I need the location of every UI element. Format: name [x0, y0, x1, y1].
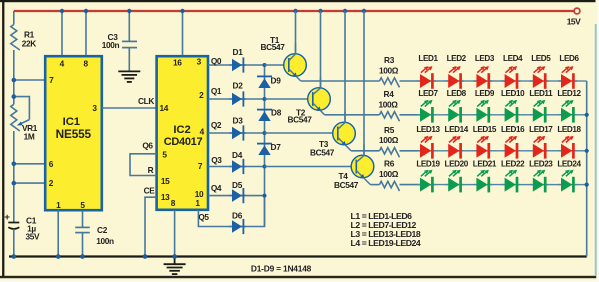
svg-text:LED7: LED7: [418, 89, 438, 98]
svg-text:LED8: LED8: [447, 89, 467, 98]
svg-text:LED14: LED14: [445, 125, 469, 134]
svg-text:R6: R6: [384, 159, 395, 169]
svg-text:LED22: LED22: [501, 159, 525, 168]
svg-text:R3: R3: [384, 55, 395, 65]
svg-text:8: 8: [83, 59, 88, 69]
svg-text:LED20: LED20: [445, 159, 469, 168]
svg-text:22K: 22K: [22, 39, 37, 49]
svg-text:LED5: LED5: [531, 54, 551, 63]
svg-text:1M: 1M: [24, 131, 35, 141]
svg-text:BC547: BC547: [260, 42, 285, 52]
svg-text:3: 3: [197, 57, 202, 67]
svg-text:Q3: Q3: [211, 155, 222, 165]
svg-text:LED16: LED16: [501, 125, 525, 134]
svg-text:CLK: CLK: [138, 96, 154, 106]
svg-text:100n: 100n: [96, 236, 114, 246]
svg-text:7: 7: [198, 161, 203, 171]
svg-text:100Ω: 100Ω: [378, 99, 398, 109]
svg-text:Q1: Q1: [211, 86, 222, 96]
svg-text:BC547: BC547: [310, 148, 335, 158]
svg-text:Q5: Q5: [198, 212, 209, 222]
svg-text:D4: D4: [232, 150, 243, 160]
svg-text:IC2: IC2: [173, 124, 190, 136]
svg-text:BC547: BC547: [287, 115, 312, 125]
svg-text:CD4017: CD4017: [164, 136, 203, 148]
svg-text:Q2: Q2: [211, 120, 222, 130]
svg-text:D9: D9: [271, 76, 282, 86]
svg-text:+: +: [4, 212, 10, 223]
svg-text:LED9: LED9: [475, 89, 495, 98]
svg-text:LED12: LED12: [557, 89, 581, 98]
svg-text:5: 5: [80, 200, 85, 210]
svg-text:35V: 35V: [26, 232, 41, 242]
svg-text:IC1: IC1: [63, 116, 80, 128]
svg-text:D5: D5: [232, 180, 243, 190]
svg-text:LED19: LED19: [416, 159, 440, 168]
svg-text:LED24: LED24: [557, 159, 581, 168]
svg-text:BC547: BC547: [334, 180, 359, 190]
svg-text:LED1: LED1: [418, 54, 438, 63]
svg-text:100n: 100n: [102, 40, 120, 50]
svg-text:13: 13: [161, 192, 170, 202]
svg-text:CE: CE: [144, 186, 156, 196]
svg-text:100Ω: 100Ω: [379, 65, 399, 75]
svg-text:D1-D9 = 1N4148: D1-D9 = 1N4148: [251, 263, 312, 273]
svg-text:5: 5: [162, 150, 167, 160]
svg-text:D3: D3: [233, 116, 244, 126]
svg-text:NE555: NE555: [56, 127, 92, 141]
svg-text:LED6: LED6: [559, 54, 579, 63]
svg-text:15V: 15V: [567, 17, 581, 27]
svg-text:C2: C2: [97, 225, 108, 235]
svg-text:16: 16: [173, 58, 182, 68]
svg-text:R5: R5: [384, 125, 395, 135]
svg-text:2: 2: [49, 178, 54, 188]
svg-text:3: 3: [92, 103, 97, 113]
svg-text:15: 15: [161, 176, 170, 186]
svg-text:LED2: LED2: [447, 54, 467, 63]
svg-text:Q4: Q4: [211, 183, 222, 193]
svg-text:Q6: Q6: [142, 141, 153, 151]
svg-text:Q0: Q0: [211, 56, 222, 66]
svg-text:LED23: LED23: [529, 159, 553, 168]
svg-text:LED4: LED4: [503, 54, 523, 63]
svg-text:LED11: LED11: [529, 89, 553, 98]
svg-text:LED13: LED13: [416, 125, 440, 134]
svg-text:D6: D6: [232, 211, 243, 221]
svg-text:LED15: LED15: [473, 125, 497, 134]
svg-text:LED21: LED21: [473, 159, 497, 168]
svg-text:LED18: LED18: [557, 125, 581, 134]
svg-text:D2: D2: [233, 81, 244, 91]
svg-text:14: 14: [160, 103, 169, 113]
svg-text:2: 2: [199, 90, 204, 100]
svg-text:8: 8: [171, 198, 176, 208]
svg-text:D7: D7: [271, 142, 282, 152]
svg-text:4: 4: [200, 126, 205, 136]
svg-text:LED3: LED3: [475, 54, 495, 63]
svg-text:7: 7: [49, 75, 54, 85]
svg-text:100Ω: 100Ω: [379, 169, 399, 179]
svg-text:1: 1: [195, 198, 200, 208]
svg-text:6: 6: [49, 159, 54, 169]
svg-text:R4: R4: [384, 89, 395, 99]
svg-text:4: 4: [60, 59, 65, 69]
svg-text:LED17: LED17: [529, 125, 553, 134]
svg-text:D1: D1: [233, 47, 244, 57]
svg-text:LED10: LED10: [501, 89, 525, 98]
svg-text:L4 = LED19-LED24: L4 = LED19-LED24: [351, 238, 421, 248]
svg-text:1: 1: [56, 200, 61, 210]
svg-text:R: R: [148, 165, 154, 175]
svg-text:D8: D8: [271, 108, 282, 118]
svg-text:100Ω: 100Ω: [379, 135, 399, 145]
